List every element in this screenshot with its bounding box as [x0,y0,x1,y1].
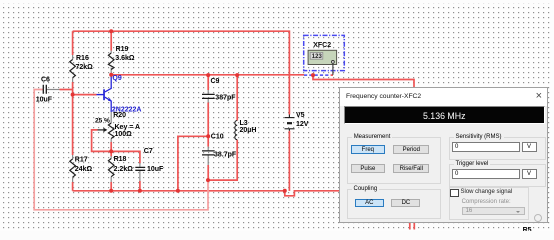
wire ground rail with hop [73,191,340,196]
XFC2 instrument icon [304,35,345,75]
pin stub C6 right [46,89,59,91]
potentiometer arrow [98,129,104,131]
wire collector node to C9/L3/XFC2 horizontal [111,74,304,76]
svg-text:38.7pF: 38.7pF [214,151,237,158]
junction at Q9 base node [71,93,75,97]
value R17 24k [75,166,93,173]
junction at R20 wiper / R18 top [109,149,113,153]
pin stubs C9 [207,90,209,103]
pin stubs R20 [110,112,112,142]
label R18 [114,156,127,163]
svg-text:C10: C10 [211,134,224,141]
svg-text:72kΩ: 72kΩ [76,64,94,71]
svg-text:387pF: 387pF [215,94,236,101]
label C6 [41,76,50,83]
capacitor C7 [135,167,145,170]
wire R17 bottom [72,182,74,191]
svg-text:R16: R16 [76,55,89,62]
label R20 [113,112,126,119]
label R19 [116,46,129,53]
resistor R16 [70,60,76,78]
svg-text:100Ω: 100Ω [115,131,133,138]
label R16 [76,55,89,62]
svg-text:C6: C6 [41,76,50,83]
svg-text:R5: R5 [523,227,532,231]
label C10 [211,134,224,141]
junction at C7 bottom on ground rail [138,189,142,193]
svg-text:V5: V5 [296,112,305,119]
battery V5 [285,115,295,131]
wire output stubs below dialog [410,221,415,230]
svg-text:R19: R19 [116,46,129,53]
label C9 [211,78,220,85]
value R20 100 ohm [115,131,133,138]
wire R16 bottom to R17 top [72,82,74,155]
label R17 [75,157,88,164]
value C10 38.7pF [214,151,237,158]
capacitor C10 [202,151,215,155]
svg-text:2.2kΩ: 2.2kΩ [114,166,134,173]
value C9 387pF [215,94,236,101]
value Q9 2N2222A [112,107,142,114]
svg-text:XFC2: XFC2 [313,42,331,49]
wire R18 top [110,151,112,156]
svg-text:24kΩ: 24kΩ [75,166,93,173]
capacitor C6 [43,85,46,94]
wire L3 bottom to node [208,140,237,180]
wire red stub right of dashed segment [331,74,333,76]
svg-text:10uF: 10uF [147,166,164,173]
wire top rail from R16 top across to V5 branch [73,31,290,114]
wire wiper loop [92,130,112,152]
frequency counter dialog [339,87,548,223]
wire C10 bottom lead [207,165,209,180]
wire C9 top lead [207,75,209,90]
svg-text:25 %: 25 % [95,118,110,125]
value C6 10uF [36,96,53,103]
svg-text:R20: R20 [113,112,126,119]
resistor R19 [108,53,114,70]
label C7 [144,148,153,155]
wire C6 loop (light) [34,90,208,210]
junction at R18 bottom on ground rail [109,189,113,193]
svg-text:L3: L3 [240,120,248,127]
wire C9 bottom to C10 top [207,103,209,147]
junction at L3 top [235,73,239,77]
junction at Q9 collector node [109,73,113,77]
resistor R17 [70,159,76,177]
wire base node to Q9 [73,94,97,96]
junction at C9 top [206,73,210,77]
label R5 (partially visible) [523,227,532,234]
svg-text:12V: 12V [296,121,309,128]
junction at tank ground tap on rail [176,189,180,193]
resistor R18 [108,159,114,177]
value C7 10uF [147,166,164,173]
junction at R19 top / supply rail [109,29,113,33]
junction at V5 negative on rail [283,189,287,193]
wire C7 bottom [139,181,141,191]
wire V5 bottom [288,131,290,191]
value R19 3.6k [115,55,135,62]
svg-text:Q9: Q9 [112,75,121,82]
potentiometer R20 [108,123,114,139]
label V5 [296,112,305,119]
pin stubs C7 [139,163,141,181]
value R20 setting 25% [95,118,110,125]
pin stubs C10 [207,147,209,166]
value R20 Key = A [115,124,141,131]
pin stubs R17 [72,155,74,182]
junction at C9/C10 node [206,134,210,138]
svg-text:C7: C7 [144,148,153,155]
wire R19 top lead [110,31,112,50]
svg-text:R18: R18 [114,156,127,163]
wire selected segment to XFC2 (blue dashed) [304,74,331,76]
wire L3 top lead [236,75,238,120]
pin stubs R19 [110,51,112,76]
inductor L3 [235,121,237,140]
wire tank node to ground rail [178,136,208,191]
svg-text:C9: C9 [211,78,220,85]
pin stubs R16 [72,55,74,82]
wire branch down to output under dialog [313,75,414,89]
value R18 2.2k [114,166,134,173]
wire junction to C7 top [111,151,140,163]
svg-text:20µH: 20µH [240,127,257,134]
junction at XFC2 tap node [311,73,315,77]
value R16 72k [76,64,94,71]
transistor emitter arrowhead [108,98,112,102]
label L3 [240,120,248,127]
transistor Q9 (selected, blue) [97,76,112,112]
value V5 12V [296,121,309,128]
pin stubs R18 [110,156,112,182]
svg-text:10uF: 10uF [36,96,53,103]
wire C6 right lead red [60,89,73,91]
junction at C10 bottom / L3 bottom node [206,178,210,182]
svg-text:R17: R17 [75,157,88,164]
label Q9 [112,75,121,82]
svg-text:123: 123 [312,54,323,60]
wire R18 bottom [110,182,112,191]
capacitor C9 [202,94,215,98]
svg-text:3.6kΩ: 3.6kΩ [115,55,135,62]
potentiometer arrowhead [103,128,107,132]
wire R20 bottom lead [110,142,112,151]
value L3 20uH [240,127,257,134]
wire R16 top lead [72,31,74,55]
